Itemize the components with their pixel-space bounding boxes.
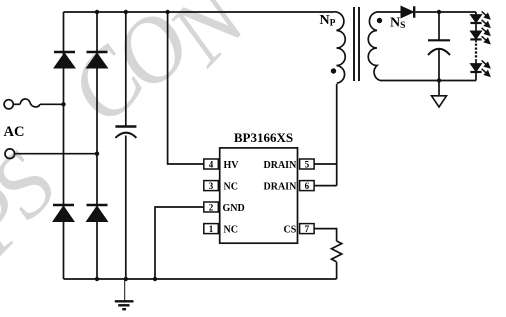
wire diode to output node xyxy=(416,11,477,13)
LED3 emission arrows xyxy=(482,60,490,76)
wire secondary top to diode xyxy=(380,11,401,13)
pin 4 box xyxy=(204,159,219,169)
svg-text:5: 5 xyxy=(305,160,310,170)
LED2 xyxy=(470,31,481,39)
svg-text:NC: NC xyxy=(224,224,238,235)
svg-text:DRAIN: DRAIN xyxy=(264,160,298,171)
svg-text:AC: AC xyxy=(4,124,25,140)
wire LED2 to dotted xyxy=(475,39,477,42)
wire bulk cap column bottom xyxy=(125,136,127,280)
LED1 xyxy=(470,15,481,23)
AC terminal bottom xyxy=(5,149,15,159)
node bottom rail gnd wire xyxy=(153,277,157,281)
diode D4 xyxy=(87,205,108,222)
node output rect xyxy=(437,10,441,14)
wire LED string top stub xyxy=(475,12,477,15)
wire pin7 CS xyxy=(314,229,337,241)
svg-text:CS: CS xyxy=(284,224,297,235)
node top rail cap xyxy=(124,10,128,14)
wire resistor to rail xyxy=(336,262,338,279)
wire AC live xyxy=(13,103,20,105)
wire pin6 drain xyxy=(314,185,337,187)
svg-text:DRAIN: DRAIN xyxy=(264,181,298,192)
LED1 emission arrows xyxy=(482,11,490,27)
ground output triangle xyxy=(432,96,447,107)
wire LED1-LED2 stub xyxy=(475,23,477,31)
diode D2 xyxy=(87,52,108,68)
wire pin5 drain xyxy=(314,163,337,165)
svg-text:4: 4 xyxy=(209,160,214,170)
IC U1 BP3166XS body xyxy=(220,148,298,243)
wire dotted to LED3 xyxy=(475,60,477,64)
svg-text:NC: NC xyxy=(224,181,238,192)
wire AC live to bridge xyxy=(40,103,64,105)
fuse F1 xyxy=(20,99,40,107)
node top rail col2 xyxy=(95,10,99,14)
wire dotted LED ellipsis xyxy=(475,44,477,60)
pin 7 box xyxy=(300,224,315,234)
wire secondary bottom rail xyxy=(380,80,476,82)
wire AC neutral xyxy=(15,153,97,155)
diode D1 xyxy=(54,52,75,68)
diode D5 output rectifier xyxy=(401,6,414,17)
svg-text:6: 6 xyxy=(305,181,310,191)
node AC live tap xyxy=(61,102,65,106)
transformer core xyxy=(354,7,359,81)
wire primary to drain xyxy=(336,84,338,186)
pin 3 box xyxy=(204,181,219,191)
svg-text:BP3166XS: BP3166XS xyxy=(234,130,293,145)
capacitor C2 output xyxy=(428,40,450,55)
ground input xyxy=(115,279,134,309)
wire LED3 to bottom xyxy=(475,72,477,81)
pin 2 box xyxy=(204,202,219,212)
capacitor C1 bulk xyxy=(115,127,136,138)
wire bulk cap column top xyxy=(125,12,127,126)
LED2 emission arrows xyxy=(482,28,490,44)
wire output ground stem xyxy=(438,81,440,96)
wire output cap top xyxy=(438,12,440,40)
LED3 xyxy=(470,64,481,72)
AC terminal top xyxy=(4,100,13,109)
pin 6 box xyxy=(300,181,315,191)
transformer secondary winding NS xyxy=(368,12,380,81)
wire top rail xyxy=(64,11,334,13)
svg-text:NS: NS xyxy=(390,15,405,31)
diode D3 xyxy=(53,205,74,222)
transformer T1 primary winding NP xyxy=(333,12,345,83)
svg-text:NP: NP xyxy=(320,13,336,29)
wire bottom rail xyxy=(64,278,337,280)
svg-text:7: 7 xyxy=(305,224,310,234)
svg-text:HV: HV xyxy=(224,160,240,171)
node bottom rail col2 xyxy=(95,277,99,281)
svg-text:3: 3 xyxy=(209,181,214,191)
pin 5 box xyxy=(300,159,315,169)
primary polarity dot xyxy=(331,68,336,73)
svg-text:2: 2 xyxy=(209,203,214,213)
svg-text:GND: GND xyxy=(223,203,245,214)
node output bottom xyxy=(437,78,441,82)
pin 1 box xyxy=(204,224,219,234)
wire bridge column 2 xyxy=(96,12,98,279)
wire HV column xyxy=(168,12,204,164)
node bottom rail cap xyxy=(124,277,128,281)
svg-text:1: 1 xyxy=(209,224,214,234)
wire GND pin2 xyxy=(155,207,204,279)
watermark CONFIDENTIAL xyxy=(0,0,268,275)
node top rail HV xyxy=(165,10,169,14)
wire output cap bottom xyxy=(438,49,440,81)
node AC neutral tap xyxy=(95,152,99,156)
wire bridge column 1 xyxy=(63,12,65,279)
secondary polarity dot xyxy=(377,18,382,23)
resistor R1 xyxy=(332,241,342,262)
